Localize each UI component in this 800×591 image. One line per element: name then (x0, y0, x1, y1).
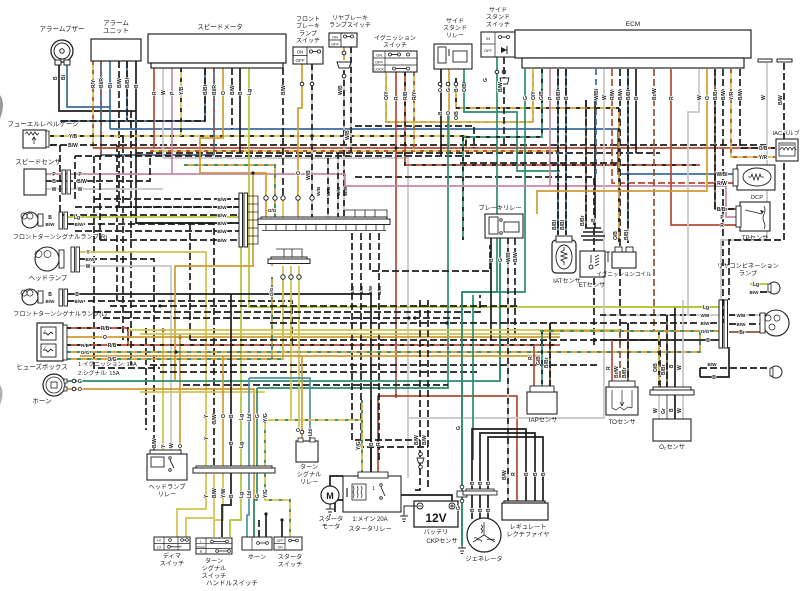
wire ssrelay B (440, 69, 442, 156)
wire ckp G (461, 292, 463, 545)
wire ign R/Y (413, 72, 415, 151)
wire strelay YG lbl (361, 400, 363, 476)
wire bus low Bd2 (190, 340, 660, 387)
wire hb Y/G2 (264, 420, 266, 474)
wire ecm B/Br (715, 69, 740, 209)
wire bw drop1 (419, 300, 421, 468)
wire R to starter (378, 396, 396, 476)
wire ign R (395, 72, 397, 396)
wire bw join (412, 468, 420, 490)
wire cc O down (175, 173, 253, 380)
svg-text:B/W: B/W (75, 299, 85, 304)
svg-text:スタータスイッチ: スタータスイッチ (278, 553, 303, 568)
wire hsw drop2 (258, 520, 260, 537)
svg-text:B/W: B/W (212, 414, 218, 424)
side stand switch (481, 32, 515, 57)
wire bus mO (80, 355, 540, 357)
wire ecm Y/R (731, 69, 775, 157)
wire alarm B/W (119, 61, 239, 207)
svg-text:B: B (489, 258, 495, 262)
svg-text:B: B (591, 218, 597, 222)
svg-text:O/B: O/B (613, 231, 619, 240)
wire bus B/W fuel (50, 144, 770, 146)
svg-text:B/W: B/W (738, 90, 744, 100)
svg-text:G: G (446, 88, 452, 92)
wire bar B/W2 (361, 233, 428, 447)
svg-text:B: B (48, 292, 52, 298)
wire speedo P (171, 68, 173, 174)
svg-text:O: O (221, 414, 227, 418)
svg-text:Lg: Lg (703, 305, 709, 311)
wire hb O2 (222, 356, 224, 474)
wire iap B/Br (549, 323, 551, 392)
wire strelay bat (401, 495, 452, 501)
wire alarm Bl (109, 61, 111, 129)
svg-text:B: B (229, 414, 235, 418)
wire bus mY2 (140, 333, 560, 335)
wire bus rm1 (460, 162, 620, 164)
svg-text:W: W (697, 95, 703, 100)
svg-text:O₂センサ: O₂センサ (659, 444, 685, 451)
svg-text:B: B (669, 364, 675, 368)
svg-text:O: O (103, 335, 107, 341)
svg-text:バッテリ: バッテリ (424, 529, 449, 536)
svg-text:スタータリレー: スタータリレー (348, 525, 391, 533)
wire ecm B/Bl iat1 (557, 69, 559, 235)
svg-text:B: B (478, 508, 484, 512)
svg-text:W/B: W/B (343, 186, 349, 196)
svg-text:B/W: B/W (350, 285, 356, 295)
svg-text:R: R (152, 91, 158, 95)
wire alarm R/Y (92, 61, 94, 148)
svg-text:ハンドルスイッチ: ハンドルスイッチ (206, 579, 258, 587)
wire left v3 (130, 111, 132, 365)
svg-text:B/W: B/W (513, 252, 519, 262)
svg-text:B/W: B/W (217, 205, 227, 211)
svg-text:B/W: B/W (368, 285, 374, 295)
wire hbb G (254, 474, 257, 537)
scan artifact left (0, 95, 3, 119)
wire fbrake O (298, 64, 302, 217)
wire headlamp Y (80, 252, 206, 466)
svg-text:B/W: B/W (46, 222, 56, 227)
wire bus Y/B fuel (50, 136, 466, 148)
central connector bar (258, 210, 390, 231)
wire bus m2 (94, 295, 480, 312)
svg-text:Lg: Lg (239, 414, 245, 420)
connector B/W bullets (417, 452, 424, 469)
regulator (502, 503, 548, 520)
DCP (733, 165, 775, 190)
wire gen B3 (487, 495, 489, 519)
svg-text:B/Bl: B/Bl (203, 84, 209, 95)
speedometer (148, 34, 286, 63)
wire coil O/B (618, 108, 620, 243)
wire fbrake W/B (311, 64, 313, 217)
svg-text:B/W: B/W (217, 238, 227, 244)
svg-text:O: O (178, 444, 184, 448)
wire hb Y (205, 466, 207, 474)
wire reg B2 (480, 433, 535, 501)
wire rear Lg (620, 306, 721, 308)
wire gb link (462, 137, 464, 240)
svg-text:ON: ON (277, 546, 283, 550)
wire rear Br out (729, 331, 762, 333)
svg-text:B/Bl: B/Bl (556, 89, 562, 100)
generator connector (463, 489, 497, 495)
svg-text:B/W: B/W (422, 435, 428, 445)
svg-text:Y/R: Y/R (759, 155, 768, 161)
ignition coil (606, 247, 636, 268)
wire cc Y2 (282, 198, 284, 217)
svg-text:W: W (169, 443, 175, 448)
svg-text:R/Y: R/Y (412, 91, 418, 100)
svg-text:B: B (229, 494, 235, 498)
wire left v1 (116, 145, 118, 301)
starter relay (343, 472, 401, 512)
ET sensor (580, 228, 605, 277)
svg-text:Bl/R: Bl/R (212, 85, 218, 95)
svg-text:B/W: B/W (217, 221, 227, 227)
wire fturnL B (68, 294, 371, 476)
svg-text:LO: LO (157, 546, 162, 550)
svg-text:ディマスイッチ: ディマスイッチ (160, 552, 185, 567)
wire gen B1 (471, 495, 473, 519)
svg-text:B/W: B/W (217, 197, 227, 203)
wire alarm B (136, 61, 239, 223)
svg-text:ETセンサ: ETセンサ (579, 282, 605, 289)
wire spdsen W (46, 188, 163, 190)
svg-text:Lbl: Lbl (308, 428, 314, 436)
wire to B/Br (627, 323, 629, 387)
svg-text:フロントターンシグナルランプ(R): フロントターンシグナルランプ(R) (13, 233, 108, 241)
svg-text:O/Y: O/Y (384, 91, 390, 100)
turn signal relay (296, 438, 318, 462)
wire to R (611, 340, 613, 387)
svg-text:G: G (255, 494, 261, 498)
horn switch (242, 537, 272, 550)
speedometer lip (151, 63, 283, 68)
svg-text:ターンシグナルスイッチ: ターンシグナルスイッチ (202, 557, 227, 580)
wire lc Y2 (290, 266, 292, 420)
junction connector B/W (239, 193, 258, 247)
svg-text:Lg: Lg (247, 89, 253, 95)
wire hsw drop (265, 514, 267, 537)
svg-text:ヒューズボックス: ヒューズボックス (16, 362, 67, 371)
svg-text:Lg: Lg (239, 442, 245, 448)
svg-text:B/W: B/W (618, 90, 624, 100)
svg-text:O/G: O/G (269, 287, 275, 296)
wire conn W (721, 63, 767, 300)
wire ecm B/W3 (740, 69, 775, 148)
connector rear brake O (337, 51, 351, 78)
wire speedo B (239, 68, 241, 153)
wire ecm B/W2 (722, 69, 724, 323)
wire bus B dash3 (355, 177, 594, 345)
svg-text:サイドスタンドスイッチ: サイドスタンドスイッチ (486, 7, 510, 28)
wire rbrake WB chain (343, 70, 345, 217)
svg-text:O/B: O/B (653, 363, 659, 372)
svg-text:W/B: W/B (338, 85, 344, 95)
wire o2 W (682, 300, 684, 387)
svg-text:Y/B: Y/B (69, 134, 78, 140)
wire fturnL B/W (68, 301, 292, 345)
wire ecm G (462, 69, 525, 545)
wire hbb B2 (281, 520, 283, 537)
TP sensor (736, 202, 770, 231)
wire ssrelay O (448, 69, 450, 148)
svg-text:Y/B: Y/B (179, 86, 185, 95)
wire rear link (699, 368, 701, 377)
wire reg B3 (488, 437, 543, 501)
svg-text:アラームブザー: アラームブザー (40, 24, 85, 33)
wire ssrelay O/B (456, 78, 619, 108)
svg-text:O/G: O/G (81, 350, 90, 355)
ECM (515, 30, 751, 58)
svg-text:B/W: B/W (117, 78, 123, 88)
svg-text:B: B (706, 338, 710, 344)
wire ecm Br/W (654, 69, 700, 331)
wire hb Lbl (249, 378, 310, 426)
svg-text:B: B (533, 472, 539, 476)
svg-text:O: O (438, 88, 444, 92)
svg-text:O/Y: O/Y (531, 91, 537, 100)
wire hb B (230, 294, 232, 474)
wire gen B2 (479, 495, 481, 519)
wire speedo Lg (249, 68, 721, 307)
svg-text:OFF: OFF (484, 48, 493, 53)
svg-text:B/Bl: B/Bl (552, 219, 558, 230)
svg-text:HI: HI (157, 539, 160, 543)
svg-text:1:メイン 20A: 1:メイン 20A (352, 517, 387, 523)
wire fturnR B/W (68, 224, 214, 466)
svg-text:W: W (677, 408, 683, 413)
wire bwj 5 (75, 230, 240, 232)
wire ign O/Y (386, 72, 533, 122)
svg-text:ターンシグナルリレー: ターンシグナルリレー (297, 463, 322, 486)
svg-text:ECM: ECM (626, 21, 640, 28)
svg-text:B/W: B/W (86, 257, 96, 262)
svg-text:B/W: B/W (502, 470, 508, 480)
svg-text:Bl: Bl (61, 74, 67, 80)
svg-text:B/Bl: B/Bl (624, 229, 630, 240)
svg-text:R/Y: R/Y (91, 79, 97, 88)
svg-text:W: W (677, 365, 683, 370)
wire fuel Y/B (50, 135, 56, 137)
svg-text:W/B: W/B (701, 313, 711, 318)
svg-text:B/W: B/W (46, 299, 56, 304)
svg-text:スピードセンサ: スピードセンサ (15, 158, 61, 166)
ignition switch (373, 51, 417, 72)
brake relay (485, 214, 523, 238)
wire v94b (94, 312, 160, 368)
wire o2 B/Br (666, 315, 668, 387)
wire lc Y3 (298, 266, 300, 430)
wire bus R/Y (150, 150, 560, 152)
wire hb G (256, 388, 258, 474)
svg-text:B/Br: B/Br (622, 367, 628, 378)
svg-text:O: O (296, 171, 302, 175)
wire bus mBd2 (183, 384, 448, 386)
svg-text:W/B: W/B (336, 186, 342, 196)
wire bwj 6 (100, 239, 240, 241)
svg-text:B: B (486, 508, 492, 512)
svg-text:G: G (456, 426, 462, 430)
handlebar connector bar (193, 466, 275, 473)
svg-text:1: 1 (372, 486, 375, 492)
wire buzzer Bl (67, 62, 110, 107)
svg-text:W/B: W/B (345, 130, 351, 140)
wire bwj 3v (59, 145, 61, 215)
wire bus B dash1 (136, 152, 660, 154)
wire speedo R (153, 68, 155, 148)
svg-text:R: R (528, 356, 534, 360)
rear lamp connector (719, 300, 728, 348)
wire left v2 (122, 136, 124, 340)
svg-text:B/W: B/W (359, 285, 365, 295)
wire bus low Bd1 (110, 305, 520, 307)
wire ecm B/Br et (585, 100, 587, 228)
svg-text:W/Bl: W/Bl (716, 172, 728, 178)
wire bus mY3 (140, 391, 265, 393)
wire bus B dash2 (75, 155, 470, 157)
svg-text:Y/G: Y/G (356, 441, 362, 450)
rear brake lamp switch (329, 33, 357, 47)
wire reg B1 (472, 429, 526, 501)
wire hb Y/G (265, 420, 362, 476)
svg-text:G/B: G/B (539, 91, 545, 100)
svg-text:Lg: Lg (74, 215, 80, 221)
svg-text:Y/R: Y/R (729, 91, 735, 100)
svg-text:ヘッドランプ: ヘッドランプ (29, 274, 68, 282)
wire ecm O (537, 69, 707, 214)
wire hbb Y2 (186, 474, 214, 538)
svg-text:B: B (669, 408, 675, 412)
svg-text:B/W: B/W (75, 222, 85, 227)
rear lamp bulb top (768, 282, 780, 294)
svg-text:G: G (456, 506, 462, 510)
svg-text:B/W: B/W (77, 179, 87, 185)
svg-text:B: B (134, 84, 140, 88)
IAC valve (776, 139, 798, 161)
svg-text:B/Br: B/Br (661, 364, 667, 375)
wire ecm B/Bl iat2 (565, 69, 567, 235)
wire hbb Y (177, 474, 206, 538)
svg-text:O/B: O/B (759, 146, 768, 152)
svg-text:Y/G: Y/G (263, 489, 269, 498)
wire bwj down2 (74, 156, 76, 199)
alarm unit (91, 39, 141, 61)
wire speedo B/W (231, 68, 233, 129)
svg-text:O: O (221, 91, 227, 95)
svg-text:B: B (75, 292, 79, 298)
wire speedo O (200, 68, 253, 173)
svg-text:B/W: B/W (377, 285, 383, 295)
wire left v4 (145, 328, 147, 430)
svg-text:B: B (369, 442, 375, 446)
wire fuse O/G2 (67, 277, 283, 359)
svg-text:B: B (48, 215, 52, 221)
svg-text:B/W: B/W (68, 143, 78, 149)
rear lamp bulb bottom (770, 366, 782, 378)
svg-text:Bl: Bl (108, 82, 114, 88)
wire brelay G (499, 238, 501, 381)
svg-text:O: O (78, 387, 82, 393)
starter motor (321, 486, 339, 515)
IAT sensor (552, 236, 576, 273)
TO sensor (606, 381, 638, 415)
wire spdsen P (46, 174, 550, 186)
wire fuse R/B1 (67, 328, 560, 345)
wire fuse O/G1 (67, 331, 721, 352)
wire conn B/W (729, 63, 784, 300)
svg-text:O/G: O/G (268, 208, 277, 214)
svg-text:PUSH: PUSH (197, 545, 205, 549)
svg-text:R/B: R/B (108, 343, 117, 349)
svg-text:W: W (52, 187, 57, 193)
wire bus Bl (110, 129, 735, 174)
wire bus m13 (150, 364, 600, 366)
svg-text:B/W: B/W (212, 488, 218, 498)
svg-text:Lbl: Lbl (247, 490, 253, 498)
wire rbrake O (343, 47, 345, 60)
svg-text:TOセンサ: TOセンサ (608, 419, 635, 426)
svg-text:ジェネレータ: ジェネレータ (465, 555, 502, 563)
wire ssswitch G (462, 57, 497, 292)
svg-text:B: B (229, 441, 235, 445)
wire cc Y1 (253, 173, 266, 217)
svg-text:R/B: R/B (101, 326, 110, 332)
wire bus R (93, 147, 775, 149)
svg-text:LOCK: LOCK (374, 68, 384, 72)
wire ecm W2 (688, 69, 721, 315)
svg-text:リヤブレーキランプスイッチ: リヤブレーキランプスイッチ (329, 14, 371, 29)
svg-text:W/B: W/B (506, 252, 512, 262)
wire bus mY1 (128, 329, 620, 331)
wire ssswitch B/W (503, 57, 505, 145)
wire ecm G/B (463, 69, 542, 137)
wire bar B/W1 (352, 233, 420, 440)
svg-text:ON: ON (376, 53, 382, 58)
svg-text:B: B (478, 481, 484, 485)
wire ecm R/W (612, 69, 735, 183)
dimmer switch (154, 537, 190, 550)
wire cc W/B2 (327, 158, 329, 217)
wire bus B dash126 (355, 126, 474, 148)
svg-text:Y/W: Y/W (221, 488, 227, 498)
wire horn O (66, 389, 254, 537)
wire bar B/W3 (370, 233, 490, 271)
lower central connector (268, 249, 310, 264)
svg-text:B/W: B/W (701, 321, 711, 326)
generator (467, 518, 501, 552)
svg-text:OFF: OFF (375, 60, 384, 65)
svg-text:B/Br: B/Br (580, 215, 586, 226)
wire relay O (179, 337, 181, 452)
wire o2 below W2 (682, 395, 684, 419)
svg-text:B/Bl: B/Bl (626, 89, 632, 100)
svg-text:R: R (669, 96, 675, 100)
wire strelay B (370, 400, 372, 476)
svg-text:IATセンサ: IATセンサ (553, 278, 581, 285)
wire bwj down (99, 156, 101, 240)
svg-text:IN: IN (486, 36, 490, 41)
wire lc Y1 (282, 266, 284, 359)
svg-text:スピードメータ: スピードメータ (197, 22, 243, 31)
svg-text:B: B (470, 481, 476, 485)
wire bwj 3 (60, 214, 240, 216)
svg-text:ホーン: ホーン (248, 554, 266, 561)
